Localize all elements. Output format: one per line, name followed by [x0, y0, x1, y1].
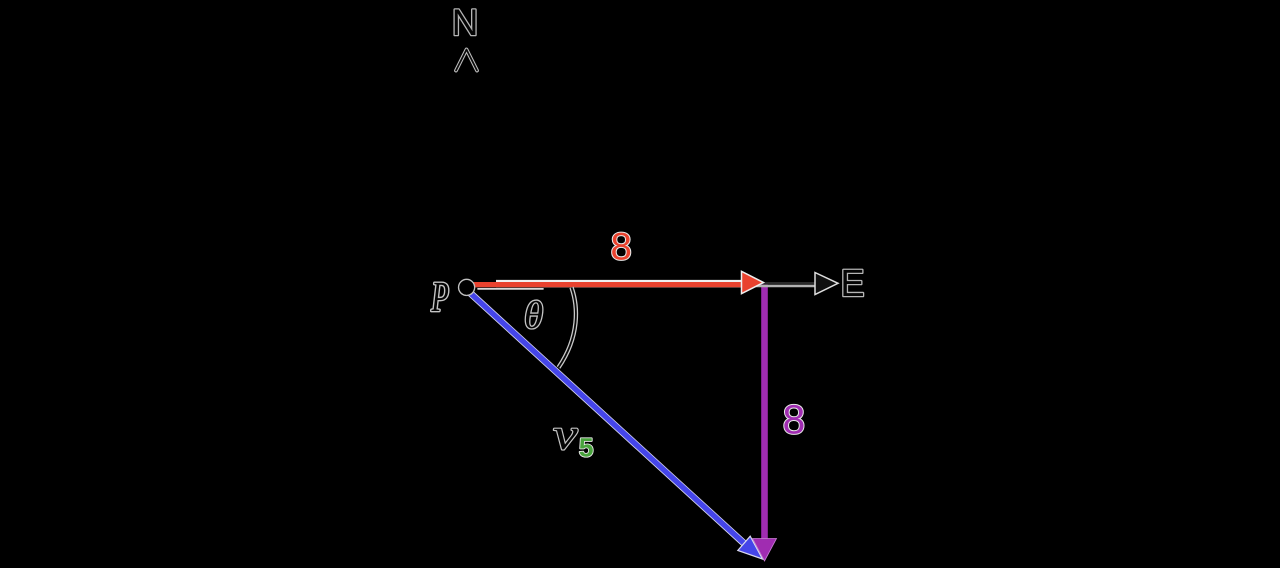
north arrowhead caret: [456, 50, 477, 71]
wire: blue vector shaft: [468, 291, 747, 546]
purple vertical vector shaft: [761, 285, 768, 543]
angle arc halo: [559, 287, 576, 367]
label P: [431, 283, 448, 311]
angle arc: [559, 287, 576, 367]
east axis arrowhead: [815, 273, 838, 295]
blue arrowhead: [738, 536, 763, 559]
purple arrowhead: [753, 539, 777, 562]
label theta: [526, 301, 542, 329]
label E: [843, 270, 863, 296]
white under-streak left of red vector: [478, 288, 543, 290]
point P dot: [459, 279, 475, 295]
east axis line: [472, 282, 818, 285]
red vector halo: [496, 280, 741, 287]
red vector shaft: [471, 282, 741, 287]
label red 8: [612, 233, 630, 260]
label v: [554, 429, 578, 450]
east axis under-halo: [472, 285, 818, 288]
label N: [455, 10, 476, 35]
wire: blue vector halo: [468, 291, 748, 547]
label green subscript 5: [580, 438, 593, 456]
label purple 8: [784, 405, 803, 434]
red arrowhead: [742, 271, 764, 293]
